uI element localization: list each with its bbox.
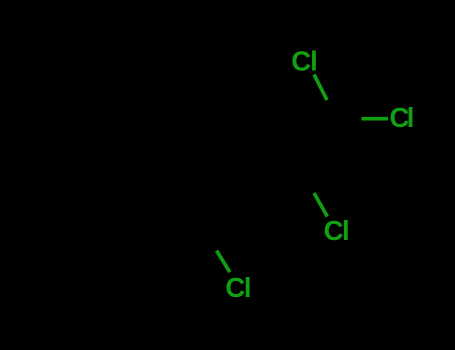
svg-text:C: C [291, 46, 311, 77]
carbon half of bond C1 to Cl2 [340, 118, 361, 120]
svg-text:C: C [225, 272, 245, 303]
carbon half of bond C2 to Cl3 [301, 171, 314, 193]
green half-bonds (chlorine side) [217, 75, 388, 273]
carbon half of bond C4 to Cl4 [205, 231, 217, 251]
carbon half of bond C1 to Cl1 [327, 99, 340, 122]
svg-text:C: C [324, 215, 344, 246]
bond Cl2 stub (right, horizontal) [362, 117, 389, 121]
bond Cl1 stub (top) [314, 75, 327, 101]
svg-text:l: l [310, 46, 318, 77]
svg-text:l: l [342, 215, 350, 246]
bond C4-C5 ring edge [146, 219, 205, 231]
svg-text:l: l [407, 102, 415, 133]
svg-text:l: l [244, 272, 252, 303]
bond C3-C4 ring edge [205, 186, 248, 231]
bond C1-C2 (CCl2 to CHCl) [301, 122, 340, 171]
wire: carbon skeleton (near-invisible dark strokes) [120, 99, 361, 251]
bond C5-C6 ring edge [120, 166, 146, 219]
bond C6-C7 ring edge [120, 121, 163, 166]
bond C2-C3 (CHCl to ring C) [248, 171, 301, 186]
bond Cl3 stub (middle) [314, 193, 327, 217]
bond C7-C3 ring edge [163, 121, 222, 133]
bond Cl4 stub (bottom) [217, 251, 230, 273]
